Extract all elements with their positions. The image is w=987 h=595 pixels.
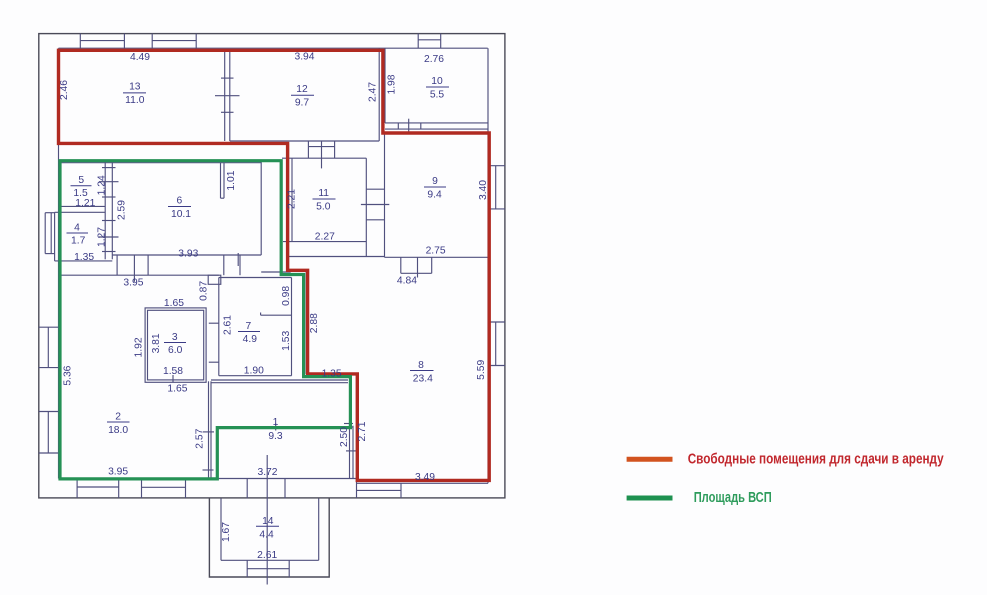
room 6 bottom wall (112, 254, 261, 256)
svg-text:1.65: 1.65 (164, 298, 184, 309)
room 10 bottom band midline (385, 128, 488, 130)
svg-text:1.98: 1.98 (387, 74, 398, 94)
door ticks corridor/room2 (116, 255, 118, 275)
left wall window (room 2 lower) (39, 411, 59, 413)
inner bottom wall right section (357, 482, 488, 484)
svg-text:23.4: 23.4 (413, 374, 433, 385)
room 14 bottom window (246, 560, 248, 577)
svg-text:4.4: 4.4 (259, 530, 274, 541)
svg-text:5: 5 (78, 175, 84, 186)
room 7 walls (219, 277, 292, 279)
tick below room 3 (172, 375, 174, 382)
svg-text:11.0: 11.0 (125, 95, 145, 106)
svg-text:3.95: 3.95 (108, 467, 128, 478)
svg-text:4: 4 (74, 222, 80, 233)
legend green line (627, 496, 673, 501)
svg-text:1.65: 1.65 (167, 384, 187, 395)
svg-text:2.61: 2.61 (223, 315, 234, 335)
wall stub in room 7 (261, 314, 292, 316)
svg-text:1.90: 1.90 (244, 366, 264, 377)
svg-text:Площадь ВСП: Площадь ВСП (694, 490, 772, 506)
room 8 top wall (288, 256, 385, 258)
room 6 top wall (60, 162, 261, 164)
room 5 bottom wall (59, 205, 106, 207)
svg-text:12: 12 (296, 84, 308, 95)
svg-text:2.47: 2.47 (368, 82, 379, 102)
outer wall boundary (39, 34, 505, 498)
svg-text:1.24: 1.24 (97, 175, 108, 195)
svg-text:0.87: 0.87 (199, 281, 210, 301)
legend red line (627, 457, 673, 462)
svg-text:3.49: 3.49 (415, 472, 435, 483)
room 10 bottom wall (385, 122, 488, 124)
wall stub in room 6 (220, 163, 222, 199)
svg-text:2.88: 2.88 (309, 313, 320, 333)
svg-text:1.35: 1.35 (74, 252, 94, 263)
svg-text:2.75: 2.75 (426, 246, 446, 257)
inner right wall (487, 48, 489, 483)
green zone outline: VSP area (60, 161, 350, 479)
room 6 right wall (260, 161, 262, 255)
corridor right walls under overlays (280, 161, 282, 275)
svg-text:3.93: 3.93 (178, 248, 198, 259)
svg-text:1.7: 1.7 (71, 236, 86, 247)
svg-text:9.3: 9.3 (268, 431, 283, 442)
svg-text:2: 2 (115, 412, 121, 423)
svg-text:18.0: 18.0 (108, 425, 128, 436)
door band to room 14 (246, 479, 248, 499)
inner bottom wall left section (59, 478, 357, 480)
svg-text:5.5: 5.5 (430, 90, 445, 101)
room 1 label tick (275, 424, 277, 431)
svg-text:5.36: 5.36 (62, 365, 73, 385)
top wall window 3 (417, 34, 419, 49)
svg-text:10.1: 10.1 (171, 209, 191, 220)
svg-text:3: 3 (172, 332, 178, 343)
top wall window 2 (151, 34, 153, 49)
svg-text:1.01: 1.01 (226, 170, 237, 190)
red zone outline: rooms for rent (59, 50, 490, 480)
svg-text:6.0: 6.0 (168, 345, 183, 356)
wall between rooms 12 and 10 (378, 48, 380, 141)
inner left wall (58, 48, 60, 478)
room 12 bottom wall (230, 140, 379, 142)
room 4 box (55, 211, 106, 213)
svg-text:9.7: 9.7 (295, 98, 310, 109)
svg-text:3.95: 3.95 (123, 278, 143, 289)
ticks on wall 13|12 (221, 77, 234, 79)
room number/area labels (59, 51, 489, 561)
svg-text:2.27: 2.27 (315, 232, 335, 243)
right wall window of room 8 (489, 321, 505, 323)
door above room 11 (307, 141, 309, 158)
bottom wall window A (76, 479, 78, 498)
svg-text:Свободные помещения для сдачи: Свободные помещения для сдачи в аренду (688, 451, 944, 467)
svg-text:5.0: 5.0 (316, 202, 331, 213)
room 14 inner box (220, 498, 222, 560)
wall under red x306.5 (305, 272, 307, 374)
room 3 closet double box (145, 308, 206, 382)
fraction bars for room labels (67, 87, 450, 526)
svg-text:9.4: 9.4 (427, 190, 442, 201)
right wall window of room 9 (489, 165, 505, 167)
svg-text:3.94: 3.94 (294, 51, 314, 62)
svg-text:1.92: 1.92 (134, 337, 145, 357)
svg-text:2.76: 2.76 (424, 54, 444, 65)
svg-text:6: 6 (177, 196, 183, 207)
svg-text:14: 14 (262, 516, 274, 527)
svg-text:13: 13 (129, 82, 141, 93)
svg-text:9: 9 (432, 176, 438, 187)
svg-text:1.27: 1.27 (97, 227, 108, 247)
room 1 right wall double (349, 426, 351, 479)
room 1 top wall double (211, 379, 348, 381)
svg-text:2.71: 2.71 (357, 421, 368, 441)
svg-text:1.35: 1.35 (322, 369, 342, 380)
center axis line room 14 (266, 455, 268, 585)
svg-text:8: 8 (418, 360, 424, 371)
svg-text:3.72: 3.72 (257, 467, 277, 478)
left wall window (room 2 upper) (39, 326, 59, 328)
svg-text:2.46: 2.46 (59, 80, 70, 100)
svg-text:7: 7 (246, 321, 252, 332)
tick bottom of wall 2|1 (203, 469, 214, 471)
svg-text:3.81: 3.81 (151, 333, 162, 353)
door box symbol (208, 275, 221, 284)
left wall opening at room 4 (44, 213, 46, 254)
svg-text:2.50: 2.50 (339, 427, 350, 447)
bottom wall window right of protrusion (357, 489, 402, 491)
svg-text:1.53: 1.53 (281, 331, 292, 351)
svg-text:3.40: 3.40 (478, 180, 489, 200)
svg-text:4.9: 4.9 (243, 334, 258, 345)
svg-text:1.67: 1.67 (221, 522, 232, 542)
door ticks room 10/9 (397, 123, 399, 129)
wall cavity right of room 3 (209, 322, 219, 324)
svg-text:1: 1 (273, 417, 279, 428)
svg-text:1.21: 1.21 (75, 198, 95, 209)
svg-text:0.98: 0.98 (281, 286, 292, 306)
svg-text:2.61: 2.61 (257, 550, 277, 561)
wall step at x356 (356, 479, 358, 498)
wall y425.7 (217, 426, 353, 428)
wall under green x351 (350, 377, 352, 426)
shaft wall between rooms 11 and 9 (366, 188, 384, 190)
svg-text:1.58: 1.58 (163, 366, 183, 377)
svg-text:2.57: 2.57 (195, 428, 206, 448)
svg-text:10: 10 (431, 76, 443, 87)
svg-text:4.84: 4.84 (397, 275, 417, 286)
svg-text:5.59: 5.59 (476, 360, 487, 380)
svg-text:2.59: 2.59 (117, 200, 128, 220)
room 9 left wall (384, 133, 386, 257)
svg-text:2.21: 2.21 (287, 189, 298, 209)
svg-text:4.49: 4.49 (130, 52, 150, 63)
inner top wall (59, 47, 488, 49)
bottom wall window B (141, 479, 143, 498)
room 11 walls (291, 158, 293, 241)
corridor lower wall (top of room 2) (60, 274, 219, 276)
dimension tick x238 (237, 253, 239, 266)
door room 9/8 (400, 257, 402, 273)
wall between rooms 5/4 and 6 (104, 161, 106, 260)
wall between room 2 and room 1 (208, 381, 210, 478)
ticks on wall 5|6 (102, 167, 116, 169)
svg-text:11: 11 (318, 188, 329, 199)
top wall window 1 (79, 34, 81, 49)
protrusion outer wall (room 14) (209, 498, 329, 577)
room 9 bottom wall (385, 256, 489, 258)
wall between rooms 13 and 12 (224, 50, 226, 141)
